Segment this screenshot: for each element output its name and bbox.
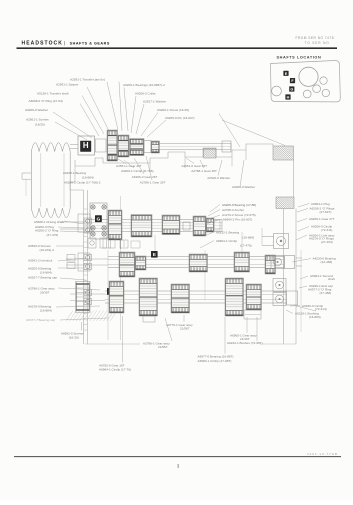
svg-text:G: G (97, 216, 101, 222)
svg-text:A2527-1 Washer: A2527-1 Washer (143, 100, 166, 104)
svg-text:(16-884): (16-884) (40, 309, 52, 313)
svg-text:TO SER NO: TO SER NO (305, 41, 330, 45)
svg-text:A6377-7 Bearing cap: A6377-7 Bearing cap (26, 318, 55, 322)
svg-text:H: H (287, 96, 290, 100)
svg-text:G: G (290, 88, 293, 92)
svg-text:(16-884): (16-884) (40, 271, 52, 275)
svg-text:(27-64T): (27-64T) (320, 210, 332, 214)
svg-text:(16-884): (16-884) (242, 235, 254, 239)
svg-text:A2561-0 Gear 35T: A2561-0 Gear 35T (181, 164, 207, 168)
svg-text:A6980-1 Circlip (17-98T): A6980-1 Circlip (17-98T) (198, 359, 232, 363)
svg-text:29/16T: 29/16T (40, 291, 50, 295)
svg-text:A2768-1 Gear 36T: A2768-1 Gear 36T (191, 169, 217, 173)
svg-text:E: E (153, 252, 156, 258)
svg-text:A5608-1 Driving shaft: A5608-1 Driving shaft (34, 220, 64, 224)
svg-text:A6977-0 Bearing (16-88T): A6977-0 Bearing (16-88T) (198, 355, 234, 359)
svg-text:(16/20): (16/20) (35, 122, 45, 126)
svg-text:A6964-1 Circlip (17-76): A6964-1 Circlip (17-76) (99, 367, 131, 371)
svg-text:(27-468): (27-468) (320, 291, 332, 295)
svg-text:21/56T: 21/56T (158, 345, 168, 349)
svg-text:A6232-1 Bearing: A6232-1 Bearing (216, 231, 239, 235)
svg-text:21/56T: 21/56T (180, 327, 190, 331)
svg-text:4401-13-77GB: 4401-13-77GB (307, 452, 338, 456)
svg-text:A6206-0 Bearing (17-88): A6206-0 Bearing (17-88) (222, 203, 256, 207)
svg-text:SHAFTS & GEARS: SHAFTS & GEARS (70, 42, 110, 46)
svg-text:(16-884): (16-884) (82, 176, 94, 180)
svg-text:A2522-0 Washer: A2522-0 Washer (207, 176, 230, 180)
svg-text:A6205-1 Bearing: A6205-1 Bearing (63, 171, 86, 175)
svg-text:A5138-1 Transfer shaft: A5138-1 Transfer shaft (37, 91, 69, 95)
svg-text:SHAFTS LOCATION: SHAFTS LOCATION (277, 56, 322, 60)
svg-text:A2591-1 Transfer jaw (In): A2591-1 Transfer jaw (In) (70, 78, 105, 82)
svg-text:A6206-2 Circlip (17-768)-2: A6206-2 Circlip (17-768)-2 (64, 181, 101, 185)
svg-text:|: | (64, 41, 65, 46)
svg-text:(27-464): (27-464) (321, 240, 333, 244)
svg-text:A6242-1 Bushes (72-98T): A6242-1 Bushes (72-98T) (227, 341, 263, 345)
svg-text:A1270-2 Screw (72-675): A1270-2 Screw (72-675) (222, 213, 256, 217)
svg-text:A6964-2 Pin (16-607): A6964-2 Pin (16-607) (223, 218, 253, 222)
svg-text:shaft: shaft (328, 277, 335, 281)
svg-text:A5541-2 Interlock: A5541-2 Interlock (28, 259, 53, 263)
svg-text:H: H (83, 141, 89, 150)
svg-text:A6206-1 Bearings (16-8867)-2: A6206-1 Bearings (16-8867)-2 (123, 83, 165, 87)
svg-text:HEADSTOCK: HEADSTOCK (22, 41, 63, 47)
svg-text:A6206-1 Gear 27T: A6206-1 Gear 27T (309, 217, 335, 221)
svg-text:A6098-0 'O' Ring (27-64): A6098-0 'O' Ring (27-64) (29, 99, 63, 103)
svg-text:A6206-0 Washer: A6206-0 Washer (25, 108, 48, 112)
svg-text:A6206-0 Washer: A6206-0 Washer (232, 185, 255, 189)
svg-text:(16-20): (16-20) (69, 335, 79, 339)
svg-text:(16-201)-2: (16-201)-2 (40, 248, 55, 252)
svg-text:A6206-2 'O' Ring: A6206-2 'O' Ring (35, 229, 59, 233)
svg-text:A6205-0 Pin (16-607): A6205-0 Pin (16-607) (165, 116, 195, 120)
svg-text:A2561-1 Screws: A2561-1 Screws (26, 118, 49, 122)
svg-text:A2768-0 Anchor: A2768-0 Anchor (222, 208, 244, 212)
svg-text:(12-468): (12-468) (321, 260, 333, 264)
svg-text:A6964-1 Plug: A6964-1 Plug (311, 202, 330, 206)
svg-text:A6206-1 Circlip (D-768): A6206-1 Circlip (D-768) (121, 169, 154, 173)
svg-text:(27-476): (27-476) (47, 233, 59, 237)
svg-text:(72-411): (72-411) (321, 228, 332, 232)
svg-text:FROM SER NO 7478: FROM SER NO 7478 (296, 36, 334, 40)
svg-text:A6206-0 Gear 26T: A6206-0 Gear 26T (132, 175, 158, 179)
svg-text:A6207-7 Bearing cap: A6207-7 Bearing cap (28, 276, 57, 280)
svg-text:A2591-1 Spacer: A2591-1 Spacer (56, 82, 78, 86)
svg-text:(72-414): (72-414) (315, 307, 327, 311)
svg-text:A2786-1 Gear 26T: A2786-1 Gear 26T (140, 181, 166, 185)
svg-text:(16-883): (16-883) (309, 315, 321, 319)
svg-text:A6206-1 Screw (16-35): A6206-1 Screw (16-35) (157, 108, 189, 112)
svg-text:A6964-1 Circlip: A6964-1 Circlip (216, 239, 237, 243)
svg-text:A6206-2 Collar: A6206-2 Collar (135, 92, 156, 96)
svg-text:(17-476): (17-476) (240, 244, 252, 248)
